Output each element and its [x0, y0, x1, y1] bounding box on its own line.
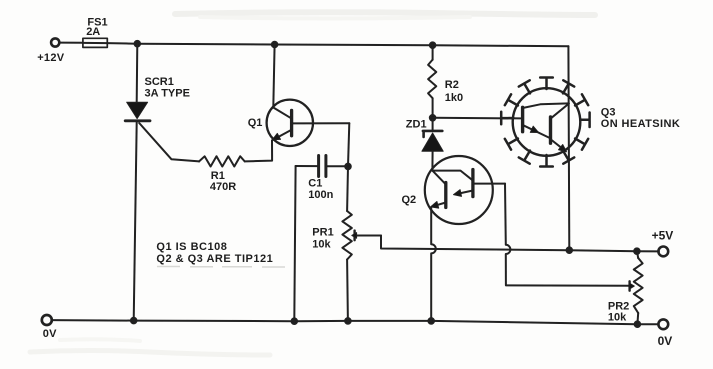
wire SCR1 cathode [134, 122, 137, 320]
capacitor C1 [296, 156, 348, 177]
wire SCR1 gate [139, 123, 199, 161]
svg-text:470R: 470R [210, 181, 236, 193]
svg-text:10k: 10k [608, 311, 627, 323]
resistor R2 [428, 45, 436, 118]
junction node B (Q1 collector) [272, 42, 278, 48]
svg-text:PR1: PR1 [312, 226, 333, 238]
wire top rail [107, 43, 568, 46]
wire Q2 collector down and right to PR2 wiper (hops over +5V wire) [505, 184, 630, 286]
wire Q1 base down [348, 123, 349, 166]
junction node PR2 top [634, 248, 640, 254]
junction node C (R2 top) [430, 42, 436, 48]
svg-text:C1: C1 [308, 177, 322, 189]
svg-text:3A TYPE: 3A TYPE [145, 87, 190, 99]
junction node PR2 bottom [635, 321, 641, 327]
junction node Q3 emitter / +5V [567, 247, 573, 253]
transistor Q3 (darlington on heatsink) [513, 88, 581, 156]
svg-text:1k0: 1k0 [445, 92, 463, 104]
transistor Q1 [267, 45, 350, 147]
svg-text:100n: 100n [308, 189, 333, 201]
wire SCR1 anode [136, 44, 139, 102]
svg-text:ON HEATSINK: ON HEATSINK [601, 118, 680, 130]
svg-text:0V: 0V [658, 334, 673, 348]
heatsink spikes of Q3 [501, 78, 589, 167]
zener diode ZD1 [422, 118, 443, 171]
faint print artifact dashes [157, 266, 285, 269]
wire C1 left branch down to 0V rail [294, 166, 295, 321]
svg-text:SCR1: SCR1 [145, 76, 174, 88]
svg-text:10k: 10k [312, 238, 331, 250]
svg-text:+5V: +5V [652, 228, 674, 242]
junction node PR1 bottom / 0V [345, 318, 351, 324]
resistor R1 [199, 156, 245, 166]
terminal +5V [658, 247, 668, 257]
junction node A (fuse/SCR) [135, 41, 141, 47]
wire +12V terminal to fuse [59, 42, 83, 44]
thyristor SCR1 [125, 102, 150, 121]
svg-text:Q1 IS BC108: Q1 IS BC108 [156, 241, 227, 253]
junction node Q2 emitter / 0V [428, 318, 434, 324]
junction node C1/PR1 [345, 164, 351, 170]
terminal +12V [51, 38, 59, 46]
junction node D (ZD1/R2/Q3 base) [430, 115, 436, 121]
svg-text:0V: 0V [43, 328, 57, 340]
potentiometer PR1 [342, 211, 351, 260]
svg-text:Q1: Q1 [248, 117, 263, 129]
wire Q3 collector/emitter vertical [567, 46, 570, 250]
wire bottom 0V rail [52, 320, 659, 324]
wire Q2 emitter down to 0V rail (hops over +5V wire) [431, 208, 436, 321]
PR1 wiper arrow [352, 231, 381, 241]
terminal 0V right [658, 319, 668, 329]
junction node C1 branch / 0V [292, 318, 298, 324]
PR2 wiper arrow [630, 281, 635, 290]
svg-text:2A: 2A [86, 26, 100, 38]
potentiometer PR2 [634, 251, 643, 324]
wire PR1 top [346, 166, 349, 211]
svg-text:Q2 & Q3 ARE TIP121: Q2 & Q3 ARE TIP121 [156, 253, 273, 265]
svg-text:Q2: Q2 [402, 194, 417, 206]
junction node SCR cathode / 0V [131, 318, 137, 324]
terminal 0V left [42, 315, 52, 325]
svg-text:R2: R2 [445, 79, 459, 91]
svg-text:+12V: +12V [37, 52, 65, 64]
wire R1 to Q1 emitter [245, 140, 272, 161]
transistor Q2 (darlington) [425, 156, 505, 224]
wire PR1 wiper to +5V rail (hops over two verticals) [381, 236, 659, 252]
svg-text:Q3: Q3 [601, 106, 616, 118]
wire PR1 bottom [346, 260, 349, 321]
fuse FS1 [83, 38, 107, 47]
wire node D to Q3 base [433, 117, 521, 120]
svg-text:ZD1: ZD1 [406, 119, 427, 131]
